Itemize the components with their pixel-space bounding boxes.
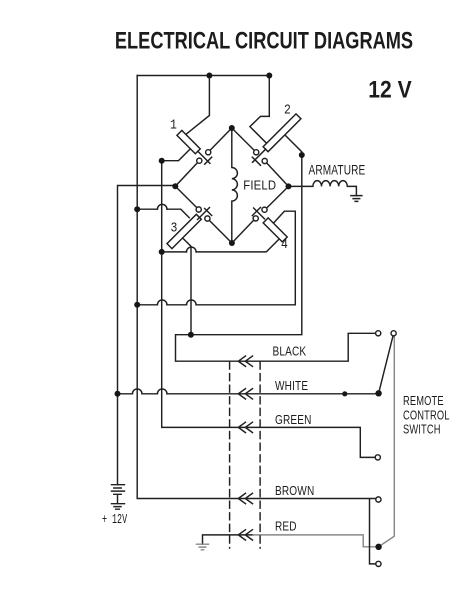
junction dot bridge right corner: [286, 183, 292, 189]
svg-text:+ 12V: + 12V: [102, 513, 127, 527]
switch contact: feed throw: [391, 331, 396, 336]
wire: top bus: [137, 75, 269, 77]
contact arm tip K4: [254, 208, 265, 219]
svg-text:CONTROL: CONTROL: [403, 409, 450, 423]
junction dot bridge top corner: [229, 125, 235, 131]
contact circle K1 upper: [206, 150, 211, 155]
wire: contactor 2 arm via armature node down to BLACK loop and switch contact: [176, 136, 376, 362]
armature winding L2 and lead: [289, 181, 357, 196]
cable sheath dashed line right: [259, 362, 261, 548]
field winding L1: [232, 128, 238, 243]
wire: WHITE lead from battery bus to switch pivot (hops over x=137,x=162): [118, 393, 379, 395]
wire: left outer branch from battery line to bridge left corner: [118, 186, 176, 485]
hop arc: [157, 389, 167, 394]
diamond edge: left corner to contact 3a: [175, 186, 197, 207]
contact circle K4 lower: [253, 216, 258, 221]
junction dot switch pivot: [375, 390, 381, 396]
diamond edge: right corner to contact 2b: [267, 163, 289, 187]
contact gap bar K3: [205, 209, 212, 216]
wire: BROWN branch down to lower switch contact: [370, 500, 376, 564]
diamond edge: bottom corner to contact 4b: [232, 220, 254, 243]
wire: node B link to contactor 4 blade tip (hop over x=191): [162, 239, 280, 252]
hop arc: [157, 204, 167, 209]
junction dot node C: [134, 206, 140, 212]
junction dot WHITE tap: [115, 391, 121, 397]
contact gap bar K1: [205, 157, 212, 164]
svg-text:BLACK: BLACK: [273, 346, 307, 359]
switch contact: GREEN throw: [375, 455, 380, 460]
junction dot node D: [134, 302, 140, 308]
junction dot WHITE mid: [342, 391, 347, 396]
connector chevrons RED: [238, 530, 252, 540]
connector chevrons GREEN: [238, 422, 252, 432]
diamond edge: bottom corner to contact 3b: [209, 220, 232, 243]
diamond edge: right corner to contact 4a: [267, 186, 289, 208]
contact gap bar K4: [252, 207, 260, 215]
wire: left bus from top bus down to BROWN, then BROWN lead to switch: [137, 76, 376, 499]
connector chevrons WHITE: [238, 389, 252, 399]
connector chevrons BROWN: [238, 493, 252, 503]
contact arm tip K1: [198, 151, 210, 163]
svg-text:RED: RED: [275, 521, 297, 534]
wire: switch blade from WHITE pivot to upper contact: [379, 336, 393, 393]
contactor K3 blade: [167, 214, 201, 248]
junction dot BLACK node: [188, 332, 194, 338]
svg-text:2: 2: [284, 103, 291, 118]
svg-text:BROWN: BROWN: [275, 485, 314, 498]
svg-text:WHITE: WHITE: [275, 380, 308, 393]
connector chevrons BLACK: [238, 356, 252, 366]
junction dot node A: [159, 158, 165, 164]
svg-text:ARMATURE: ARMATURE: [309, 162, 366, 178]
switch contact: lower throw: [376, 561, 381, 566]
junction dot RED switch node: [375, 544, 381, 550]
svg-text:1: 1: [170, 118, 177, 133]
hop arc: [187, 300, 197, 305]
wire: top bus to contactor 1 blade: [186, 76, 210, 135]
svg-text:3: 3: [171, 221, 178, 236]
junction dot top bus right: [266, 73, 272, 79]
contact circle K2 lower: [262, 158, 267, 163]
diamond edge: left corner to contact 1a: [175, 163, 197, 187]
cable sheath dashed line left: [229, 362, 231, 548]
wire: RED lead from ground to switch node: [203, 535, 254, 544]
svg-text:4: 4: [281, 237, 288, 252]
svg-text:FIELD: FIELD: [243, 178, 276, 193]
ground: armature: [351, 196, 362, 202]
junction dot armature tap: [299, 152, 305, 158]
junction dot bridge left corner: [172, 183, 178, 189]
svg-text:SWITCH: SWITCH: [403, 423, 441, 437]
wire: node A down left inner bus to GREEN lead and switch: [162, 161, 376, 458]
contact circle K3 lower: [205, 216, 210, 221]
contact circle K2 upper: [254, 150, 259, 155]
wire: switch right feed line down to RED node: [379, 336, 394, 547]
contactor K4 blade: [263, 218, 287, 242]
contact circle K1 lower: [197, 158, 202, 163]
battery BT1: [112, 485, 125, 510]
hop arc: [187, 247, 197, 252]
contactor K1 blade: [177, 130, 200, 153]
wire: contactor 3 arm down to BLACK node (through hops): [183, 238, 192, 335]
contact arm tip K2: [253, 149, 266, 162]
contact arm tip K3: [198, 208, 210, 220]
wire: contactor 1 arm to node A: [162, 148, 191, 160]
contact gap bar K2: [252, 157, 260, 165]
hop arc: [132, 389, 142, 394]
junction dot node B: [159, 249, 165, 255]
switch contact: BROWN throw: [376, 497, 381, 502]
ground: RED wire: [197, 544, 209, 550]
svg-text:GREEN: GREEN: [275, 414, 312, 427]
svg-text:REMOTE: REMOTE: [403, 395, 444, 409]
svg-text:12 V: 12 V: [368, 76, 411, 103]
junction dot bridge bottom corner: [229, 240, 235, 246]
junction dot top bus left: [206, 73, 212, 79]
contactor K2 blade: [263, 114, 301, 152]
wire: top bus jog to contactor 2 blade: [250, 76, 269, 145]
switch contact: BLACK throw: [376, 331, 381, 336]
svg-text:ELECTRICAL CIRCUIT DIAGRAMS: ELECTRICAL CIRCUIT DIAGRAMS: [115, 26, 413, 54]
wire: contactor 4 arm right and down to node D bus (hops over x=191,x=162): [137, 211, 295, 305]
wire: node C link to contactor 3 blade (hop over x=161.7): [137, 209, 189, 218]
diamond edge: top corner to contact 1b: [210, 128, 232, 150]
contact circle K3 upper: [196, 207, 201, 212]
hop arc: [157, 300, 167, 305]
contact circle K4 upper: [262, 207, 267, 212]
diamond edge: top corner to contact 2a: [232, 128, 255, 151]
